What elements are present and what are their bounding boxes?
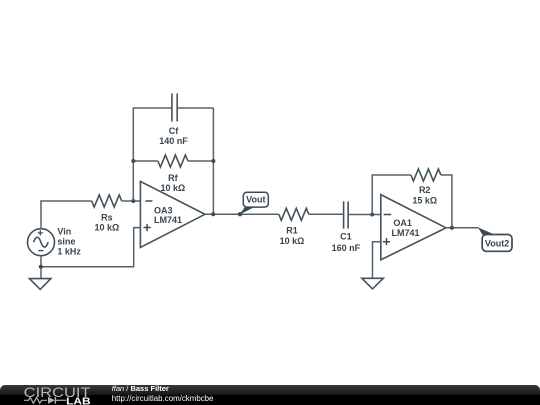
wire Rf left lead: [133, 160, 158, 162]
svg-text:10 kΩ: 10 kΩ: [161, 183, 186, 193]
svg-text:R1: R1: [286, 226, 298, 236]
wire OA3 noninverting input stub to ground net: [41, 228, 140, 267]
svg-text:LM741: LM741: [392, 228, 420, 238]
svg-text:ffan / Bass Filter: ffan / Bass Filter: [112, 384, 169, 393]
wire Cf to right vertical: [177, 107, 213, 109]
svg-text:15 kΩ: 15 kΩ: [412, 196, 437, 206]
node junction OA1 inverting / feedback: [370, 213, 374, 217]
svg-text:140 nF: 140 nF: [159, 136, 188, 146]
wire feedback right vertical: [212, 108, 214, 214]
node junction Rf left: [131, 159, 135, 163]
wire OA1 noninverting input to ground: [373, 242, 381, 279]
resistor Rf: [158, 155, 188, 167]
node junction OA1 output / feedback: [450, 226, 454, 230]
svg-text:Vout: Vout: [246, 194, 265, 204]
svg-text:Vout2: Vout2: [485, 239, 509, 249]
wire R2 feedback left vertical and top: [372, 175, 411, 215]
resistor R1: [279, 208, 309, 220]
wire R1 to C1: [309, 213, 344, 215]
wire feedback left vertical: [133, 108, 172, 201]
svg-text:sine: sine: [57, 236, 75, 246]
svg-text:160 nF: 160 nF: [332, 243, 361, 253]
voltage source V1 (Vin): [28, 229, 55, 256]
svg-text:Vin: Vin: [57, 227, 71, 237]
op-amp OA1: [381, 195, 446, 260]
svg-text:LM741: LM741: [154, 215, 182, 225]
footer logo resistor glyph: [24, 397, 47, 403]
svg-text:10 kΩ: 10 kΩ: [280, 236, 305, 246]
svg-text:OA3: OA3: [154, 205, 173, 215]
svg-text:Rs: Rs: [101, 212, 113, 222]
node junction at Rs / feedback: [131, 199, 135, 203]
footer logo diode glyph: [48, 397, 55, 404]
node flag Vout: [238, 192, 268, 216]
ground G1: [29, 279, 51, 290]
svg-text:1 kHz: 1 kHz: [57, 247, 81, 257]
wire Rf right lead: [188, 160, 214, 162]
node flag Vout2: [478, 227, 512, 251]
wire OA3 output: [205, 213, 279, 215]
node junction OA3 output / feedback: [211, 212, 215, 216]
svg-text:OA1: OA1: [393, 218, 412, 228]
capacitor C1: [344, 201, 349, 228]
svg-text:C1: C1: [340, 232, 352, 242]
wire OA1 output: [446, 227, 478, 229]
wire source bottom to ground: [40, 256, 42, 279]
wire source top to Rs: [41, 201, 92, 229]
svg-text:10 kΩ: 10 kΩ: [95, 222, 120, 232]
svg-text:R2: R2: [419, 185, 431, 195]
resistor Rs: [92, 195, 122, 207]
footer bar: [0, 385, 540, 405]
capacitor Cf: [172, 94, 177, 122]
resistor R2: [411, 169, 441, 181]
wire Rs to op-amp inverting input: [122, 200, 141, 202]
ground G2: [362, 278, 383, 289]
svg-text:http://circuitlab.com/ckmbcbe: http://circuitlab.com/ckmbcbe: [112, 394, 214, 403]
svg-text:LAB: LAB: [66, 396, 91, 405]
node junction at source bottom: [39, 265, 43, 269]
op-amp OA3: [140, 181, 205, 247]
wire C1 to OA1 inverting input: [348, 214, 381, 216]
svg-text:Cf: Cf: [169, 126, 179, 136]
svg-text:Rf: Rf: [168, 173, 178, 183]
node junction Rf right: [211, 159, 215, 163]
wire R2 right lead down to output: [441, 175, 452, 228]
